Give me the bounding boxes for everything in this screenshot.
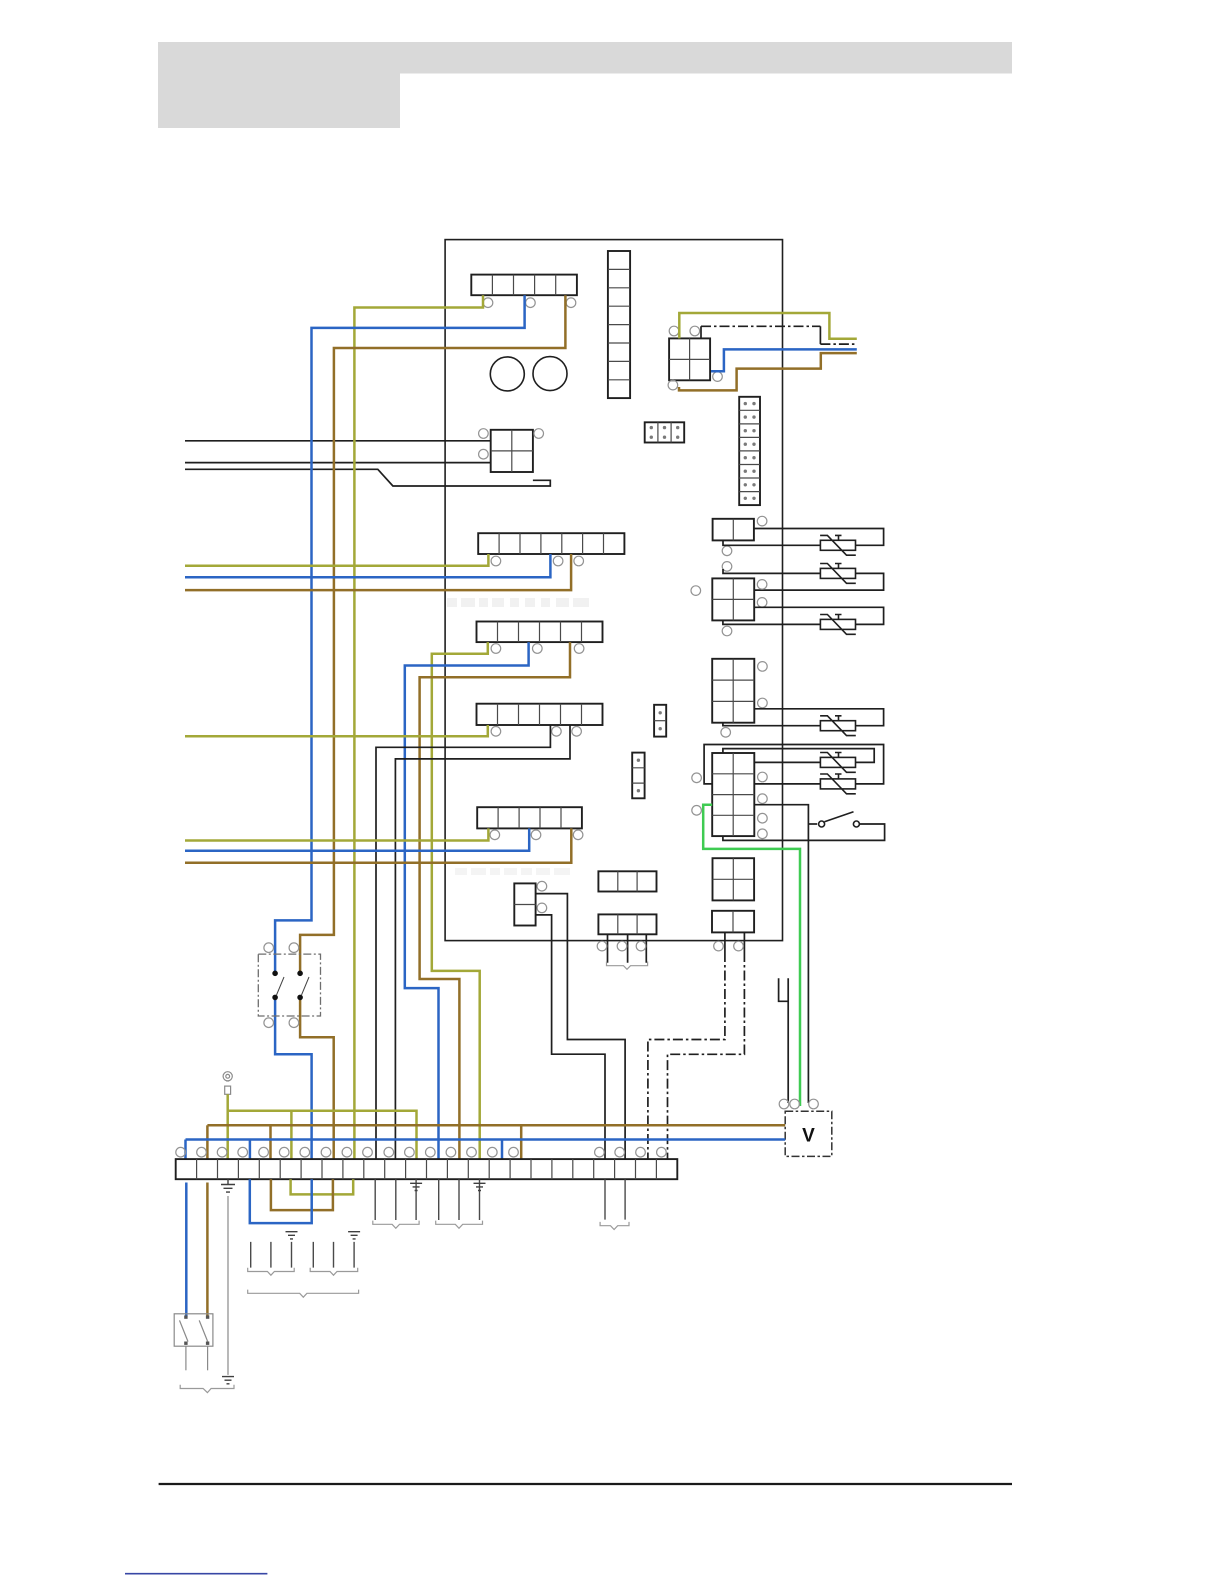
wire olive X4 to left edge xyxy=(185,554,488,566)
switch S2 contact right xyxy=(853,821,859,827)
wire blue drop p4 xyxy=(249,1140,252,1160)
wire xyxy=(185,469,550,486)
jumper olive under strip xyxy=(291,1179,354,1194)
pin circle X4-2 xyxy=(553,556,563,566)
pin circle X10-3 xyxy=(636,941,646,951)
pin circle X5-1 xyxy=(491,644,501,654)
jumper block J2 (3x2 dots) xyxy=(645,422,685,442)
thermistor RT6 xyxy=(820,774,856,794)
wire K3 loop to RT4 xyxy=(754,709,883,726)
pin circle X7-2 xyxy=(531,830,541,840)
pin circle X6-3 xyxy=(572,727,582,737)
relay K ladder (8-cell vertical strip) xyxy=(608,251,630,398)
S1 contact dots xyxy=(272,971,303,1001)
pin circle X1-2 xyxy=(526,298,536,308)
brace group 4 xyxy=(436,1221,483,1229)
thermistor RT4 xyxy=(820,716,856,736)
wire brown pin2 to S3 xyxy=(206,1183,209,1317)
pin circle K4-6 xyxy=(758,829,768,839)
brace group 3 xyxy=(373,1221,419,1229)
wire blue distribution to V meter xyxy=(186,1138,786,1141)
footer rule xyxy=(159,1483,1012,1485)
wire black X8 to terminal strip xyxy=(536,894,626,1160)
brace bottom left xyxy=(180,1385,234,1393)
wire X13 tab to RT1 xyxy=(723,540,820,545)
wire brown bus from X1 to switch S1 xyxy=(300,295,565,973)
thermistor RT1 xyxy=(820,535,856,555)
switch S1 enclosure (dash-dot box) xyxy=(258,954,320,1016)
brace under X10 xyxy=(607,962,648,970)
pin circle V-1 xyxy=(779,1099,789,1109)
svg-text:V: V xyxy=(802,1126,815,1147)
X10 pin stubs xyxy=(608,934,647,962)
wire branch to S2 xyxy=(808,823,817,825)
ground under pin 3 xyxy=(221,1179,235,1192)
S1 blade left xyxy=(277,977,285,995)
ground on group3 tick xyxy=(410,1183,422,1190)
pin circle K4-3 xyxy=(758,772,768,782)
connector X13 (relay output 2-cell) xyxy=(713,519,754,541)
wire black X6 to terminal strip xyxy=(376,725,550,1159)
S3 lead left xyxy=(185,1346,187,1370)
wire blue drop p1 xyxy=(184,1140,187,1160)
pin circle X8-1 xyxy=(537,881,547,891)
relay connector K4 (2x4) xyxy=(712,753,754,836)
wire blue X7 to left edge xyxy=(185,828,529,850)
cable group 3 ticks xyxy=(375,1179,416,1220)
wire olive X2 to right edge xyxy=(679,313,857,339)
cable group 4 ticks xyxy=(439,1179,480,1220)
pin header J1 (8x2 dots) xyxy=(739,397,760,505)
ground line from pin 3 xyxy=(227,1196,229,1375)
ground above group2 tick xyxy=(348,1232,360,1239)
connector X8 (2-cell vertical) xyxy=(514,883,535,925)
wire K4 inner loop to RT5 xyxy=(723,749,874,763)
relay connector K3 (2x3) xyxy=(712,659,754,723)
pin circle K2-1 xyxy=(757,580,767,590)
cable group 2 ticks xyxy=(313,1242,354,1268)
wire brown X5 to terminal strip xyxy=(420,642,570,1159)
wire olive X7 to left edge xyxy=(185,828,488,840)
wire brown drop p5 xyxy=(269,1125,272,1159)
wire dash-dot X12 to terminal strip xyxy=(648,952,725,1159)
pin circle K4-2 xyxy=(692,806,702,816)
pin circle K2-3 xyxy=(691,586,701,596)
wire brown X4 to left edge xyxy=(185,554,571,590)
pin circle K2-top xyxy=(722,562,732,572)
jumper blue under strip xyxy=(250,1179,312,1223)
S1 blade right xyxy=(302,977,310,995)
thermistor RT3 xyxy=(820,615,856,635)
pin block P2 (3-cell vertical with dots) xyxy=(632,753,644,799)
pin circle X13-1 xyxy=(757,516,767,526)
ground above group1 tick xyxy=(286,1232,298,1239)
connector X7 (5-cell strip) xyxy=(477,807,582,828)
pin circle X6-1 xyxy=(491,727,501,737)
pin block P1 (2-cell vertical with dots) xyxy=(654,705,666,737)
wire brown drop p17 xyxy=(520,1125,523,1159)
pin circle K2-4 xyxy=(722,626,732,636)
connector X3 (2x2 left) wires xyxy=(185,440,491,442)
switch S2 blade xyxy=(825,812,854,822)
footer link underline xyxy=(125,1573,267,1575)
pin circle V-2 xyxy=(790,1099,800,1109)
voltmeter V1 xyxy=(785,1111,832,1156)
pin circle K2-2 xyxy=(757,598,767,608)
wire blue pin1 to S3 xyxy=(185,1183,188,1317)
pin circle K4-5 xyxy=(758,813,768,823)
connector X12 (2-cell bottom of board) xyxy=(712,911,754,933)
pin circle S1-c xyxy=(264,1018,274,1028)
pin circle X5-3 xyxy=(574,644,584,654)
pin circle S1-a xyxy=(264,943,274,953)
connector X11 (2x2 bottom of board) xyxy=(713,858,755,900)
wire S2 return to K4 tab xyxy=(723,824,885,840)
ground at bottom xyxy=(222,1377,234,1384)
header band top xyxy=(158,42,1012,74)
connector X6 (6-cell strip) xyxy=(477,704,603,725)
wire K4 outer loop to RT6 xyxy=(704,745,884,784)
pin circle X13-2 xyxy=(722,546,732,556)
pin circle K4-1 xyxy=(692,773,702,783)
cable group 5 ticks xyxy=(605,1179,625,1219)
pin circle K4-4 xyxy=(758,794,768,804)
pin circle X1-1 xyxy=(483,298,493,308)
connector X3 (2x2 left) xyxy=(491,430,533,472)
pin circle K3-1 xyxy=(758,662,768,672)
wire green K4 to V meter xyxy=(703,805,800,1106)
pin circle X1-3 xyxy=(566,298,576,308)
pin circle X8-2 xyxy=(537,903,547,913)
wire RT5 to K4 right xyxy=(754,761,820,763)
terminal strip X0 (24 cells) xyxy=(176,1159,678,1179)
pin circle X2-4 xyxy=(668,380,678,390)
thermistor RT5 xyxy=(820,753,856,773)
connector X5 (6-cell strip) xyxy=(477,622,603,643)
pin circle X3-3 xyxy=(479,449,489,459)
pin circle X10-2 xyxy=(617,941,627,951)
wire olive drop xyxy=(290,1111,293,1159)
wire blue bus from X1 to switch S1 xyxy=(275,295,524,973)
pin circle K3-2 xyxy=(758,698,768,708)
wire blue drop p16 xyxy=(501,1140,504,1160)
wire black X8b to terminal strip xyxy=(536,915,605,1159)
wire stub to RT2 xyxy=(723,569,820,573)
wire blue X2 to right edge xyxy=(711,349,857,371)
pin circle X7-1 xyxy=(490,830,500,840)
jumper brown under strip xyxy=(271,1179,333,1210)
faint placeholder text row 2 xyxy=(455,868,570,875)
S3 lead right xyxy=(207,1346,209,1370)
wire brown from S1 to terminal strip xyxy=(300,997,334,1159)
wire K2 tab to RT3 xyxy=(723,620,821,624)
wire brown distribution to V meter xyxy=(207,1124,785,1127)
wire olive X6 to left edge xyxy=(185,725,488,736)
faint placeholder text row xyxy=(447,598,589,607)
wire RT2 return to K2 xyxy=(754,573,883,590)
ground on group4 tick xyxy=(474,1183,486,1190)
probe fork stub xyxy=(779,978,789,1103)
pin circle X2-1 xyxy=(669,326,679,336)
terminal strip pin circles xyxy=(176,1147,666,1157)
connector X2 (2x2 top right) xyxy=(669,338,710,380)
wire olive from lug to strip xyxy=(226,1094,229,1159)
pin circle X2-2 xyxy=(690,326,700,336)
pin circle X10-1 xyxy=(597,941,607,951)
ring terminal lug xyxy=(223,1072,232,1095)
pin circle X6-2 xyxy=(552,727,562,737)
wire blue X5 to terminal strip xyxy=(405,642,529,1159)
connector X9 (3-cell strip) xyxy=(598,871,656,891)
wire brown drop p2 xyxy=(206,1125,209,1159)
wire RT6 to K4 right xyxy=(754,783,820,785)
connector X4 (7-cell strip) xyxy=(478,533,624,554)
brace group 1 xyxy=(248,1268,295,1275)
capacitor C1 (large circle) xyxy=(490,357,524,391)
pin circle X3-2 xyxy=(534,429,544,439)
pin circle X4-1 xyxy=(491,556,501,566)
brace group 2 xyxy=(310,1268,358,1275)
S3 blade left xyxy=(180,1320,189,1341)
pin circle X12-1 xyxy=(714,941,724,951)
wire brown X7 to left edge xyxy=(185,828,571,862)
S3 blade right xyxy=(199,1320,208,1341)
pin circle X2-3 xyxy=(713,372,723,382)
pin circle X12-2 xyxy=(734,941,744,951)
brace groups 1+2 xyxy=(248,1290,359,1298)
pin circle V-3 xyxy=(809,1099,819,1109)
wire loop X13 to RT1 xyxy=(754,529,884,546)
S3 contacts xyxy=(184,1315,209,1345)
relay connector K2 (2x2) xyxy=(712,578,754,620)
wire olive bus from X1 down to terminal strip xyxy=(354,295,483,1159)
wire brown X2 to right edge xyxy=(679,353,857,390)
X12 pin stubs xyxy=(725,932,745,952)
cable group 1 ticks xyxy=(251,1242,292,1268)
pin circle X5-2 xyxy=(533,644,543,654)
connector X10 (3-cell strip) xyxy=(598,914,656,934)
wire dash-dot X2 to right edge xyxy=(700,326,702,338)
header block left xyxy=(158,74,400,129)
wire black X6b to terminal strip xyxy=(395,725,570,1159)
wire xyxy=(185,462,491,464)
pin circle X3-1 xyxy=(479,429,489,439)
brace group 5 xyxy=(600,1222,629,1230)
pin circle S1-b xyxy=(289,943,299,953)
wire olive X5 to terminal strip xyxy=(432,642,488,1159)
pin circle X7-3 xyxy=(573,830,583,840)
wire blue from S1 to terminal strip xyxy=(275,997,312,1159)
capacitor C2 (large circle) xyxy=(533,357,567,391)
switch S2 contact left xyxy=(819,821,825,827)
connector X1 (5-cell strip top) xyxy=(471,275,577,296)
pin circle K3-3 xyxy=(721,728,731,738)
switch S3 box xyxy=(174,1314,213,1346)
pin circle X4-3 xyxy=(574,556,584,566)
thermistor RT2 xyxy=(820,564,856,584)
wire dash-dot X12b to terminal strip xyxy=(668,952,745,1159)
wire blue X4 to left edge xyxy=(185,554,550,577)
wire K3 tab to RT4 xyxy=(723,723,821,726)
wire K2 loop to RT3 xyxy=(754,607,883,624)
wire K4 to switch S2 and V meter xyxy=(754,805,808,1103)
wire olive distribution xyxy=(228,1111,417,1159)
control board outline xyxy=(445,240,782,941)
pin circle S1-d xyxy=(289,1018,299,1028)
